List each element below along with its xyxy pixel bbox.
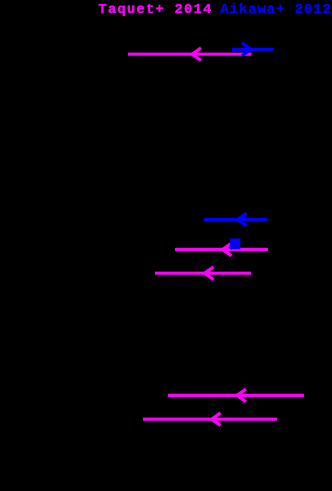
- svg-text:Aikawa+ 2012: Aikawa+ 2012: [220, 2, 332, 18]
- svg-text:Taquet+ 2014: Taquet+ 2014: [98, 2, 212, 18]
